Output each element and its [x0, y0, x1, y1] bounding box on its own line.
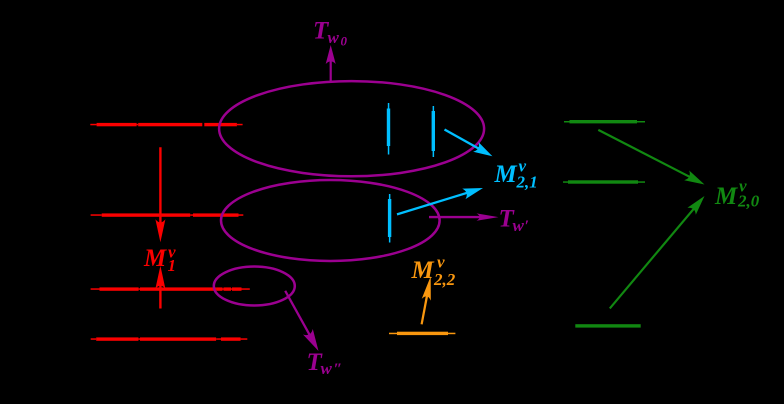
green arrow from G1 to M_{2,0}: [598, 129, 705, 185]
orange arrow M_{2,2} (up from orange line): [421, 276, 431, 324]
svg-text:w: w: [328, 28, 340, 47]
svg-text:2,0: 2,0: [737, 192, 760, 211]
svg-text:M: M: [411, 257, 435, 284]
svg-text:w: w: [513, 216, 525, 235]
cyan weight bar C (in ellipse 2): [388, 194, 391, 243]
green arrow from G3 to M_{2,0}: [609, 196, 705, 309]
purple arrow T_w' (right from ellipse 2): [429, 213, 499, 220]
green weight line G1: [564, 120, 645, 123]
label M_{2,1}^v (cyan): [494, 157, 538, 192]
red arrow M1 up (line4 to line3): [155, 266, 165, 309]
svg-text:1: 1: [168, 256, 177, 275]
purple ellipse 1 (top orbit): [219, 81, 484, 176]
svg-text:M: M: [714, 183, 738, 210]
label M_{2,2}^v (orange): [411, 253, 456, 290]
label T_w' (purple): [499, 206, 530, 236]
cyan weight bar A (in ellipse 1): [387, 103, 390, 155]
svg-text:2,1: 2,1: [516, 173, 538, 192]
svg-text:2,2: 2,2: [433, 270, 456, 289]
svg-text:″: ″: [334, 361, 343, 378]
green weight line G2: [563, 180, 645, 183]
cyan weight bar B (in ellipse 1): [432, 106, 435, 157]
svg-text:M: M: [143, 245, 167, 272]
label M_{2,0}^v (green): [714, 177, 760, 211]
purple ellipse 2 (middle orbit): [221, 180, 440, 261]
svg-text:′: ′: [525, 218, 530, 235]
purple arrow T_w'' (down-right from ellipse 3): [284, 290, 318, 351]
svg-text:0: 0: [341, 34, 348, 49]
label T_w0 (purple): [313, 18, 348, 49]
green weight line G3: [575, 324, 640, 327]
red arrow M1 down (line1 to line2): [155, 147, 165, 242]
svg-text:w: w: [321, 359, 333, 378]
svg-text:v: v: [437, 253, 445, 272]
orange weight line (w'' level): [389, 332, 455, 335]
purple ellipse 3 (small orbit): [214, 267, 295, 306]
label T_w'' (purple): [307, 349, 343, 378]
cyan arrow M_{2,1} upper (from bar B to label): [444, 129, 493, 157]
red weight line 2: [91, 213, 244, 216]
purple arrow T_w0 (up from ellipse 1): [326, 45, 336, 82]
red weight line 1: [90, 123, 242, 126]
svg-text:M: M: [494, 161, 518, 188]
label M_1^v (red): [143, 243, 176, 276]
red weight line 3: [91, 287, 250, 290]
cyan arrow M_{2,1} lower (from bar C to label): [397, 188, 483, 216]
red weight line 4: [91, 337, 248, 340]
